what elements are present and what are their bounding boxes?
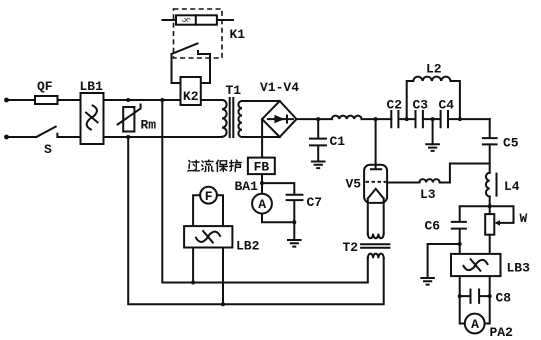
svg-text:A: A (471, 317, 479, 332)
svg-text:C8: C8 (496, 291, 512, 306)
svg-text:K2: K2 (183, 89, 199, 104)
svg-text:LB2: LB2 (236, 239, 260, 254)
svg-text:QF: QF (37, 79, 53, 94)
svg-text:C5: C5 (503, 136, 519, 151)
svg-text:W: W (520, 211, 528, 226)
svg-text:C7: C7 (307, 195, 323, 210)
svg-text:L2: L2 (426, 62, 442, 77)
svg-text:PA2: PA2 (490, 325, 514, 340)
svg-text:T1: T1 (226, 83, 242, 98)
svg-text:S: S (44, 142, 52, 157)
svg-text:C3: C3 (413, 98, 429, 113)
svg-text:C4: C4 (439, 98, 455, 113)
svg-text:L4: L4 (504, 179, 520, 194)
svg-text:FB: FB (254, 160, 270, 175)
svg-text:BA1: BA1 (235, 179, 259, 194)
svg-text:LB1: LB1 (80, 79, 104, 94)
svg-text:C6: C6 (425, 219, 441, 234)
svg-text:L3: L3 (420, 187, 436, 202)
svg-text:T2: T2 (343, 240, 359, 255)
svg-text:K1: K1 (230, 27, 246, 42)
svg-text:LB3: LB3 (507, 261, 531, 276)
svg-text:A: A (258, 197, 266, 212)
svg-text:F: F (205, 189, 213, 204)
svg-text:V5: V5 (346, 177, 362, 192)
svg-text:C1: C1 (330, 134, 346, 149)
svg-text:V1-V4: V1-V4 (260, 80, 299, 95)
svg-text:Rm: Rm (141, 118, 157, 133)
svg-text:C2: C2 (387, 98, 403, 113)
